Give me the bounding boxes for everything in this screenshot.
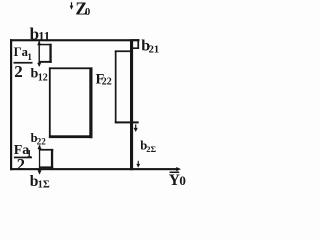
svg-text:22: 22 xyxy=(37,136,47,146)
wire outer top rail xyxy=(10,39,139,41)
svg-text:Y: Y xyxy=(169,172,180,189)
node b1S label xyxy=(30,173,50,191)
svg-text:1: 1 xyxy=(27,53,32,63)
inner rectangle (coupled line element F) xyxy=(49,67,93,138)
svg-text:21: 21 xyxy=(149,45,160,56)
svg-text:2Σ: 2Σ xyxy=(146,144,156,154)
label F*a1/2 fraction (bottom-left) xyxy=(14,143,32,174)
small wave arrow above bottom rail on right xyxy=(136,161,140,168)
wire outer bottom rail xyxy=(10,168,177,170)
element box at top-right corner (port 2) xyxy=(133,39,139,49)
node b2S label xyxy=(140,138,156,154)
node b11 label xyxy=(30,24,50,43)
node Z0 input arrow mark xyxy=(70,2,74,10)
svg-text:22: 22 xyxy=(102,77,112,88)
wave arrow below stub on right edge xyxy=(134,124,138,132)
label F22 xyxy=(96,72,112,88)
element box at port 1 (top-left) xyxy=(39,44,52,63)
svg-text:0: 0 xyxy=(179,173,186,188)
node b21 label xyxy=(141,37,159,55)
right stub line (narrow vertical rectangle) xyxy=(115,50,139,123)
node Y0 label (with overbar) xyxy=(169,172,186,189)
svg-text:0: 0 xyxy=(85,7,90,18)
node b12 label xyxy=(31,67,48,84)
output arrowhead on bottom rail (toward Y0) xyxy=(176,167,181,171)
node b22 label (faint) xyxy=(31,131,47,147)
svg-text:2: 2 xyxy=(14,62,23,81)
wire outer right thick edge xyxy=(130,39,133,170)
element box at port 1' (bottom-left) xyxy=(39,149,53,168)
wave arrow at port 1 (double headed, top-left) xyxy=(37,41,41,67)
node Z0 label xyxy=(75,0,90,19)
svg-text:2: 2 xyxy=(17,155,25,174)
svg-text:1Σ: 1Σ xyxy=(38,180,50,191)
svg-text:12: 12 xyxy=(38,73,48,84)
wire outer left edge xyxy=(10,39,12,170)
svg-text:11: 11 xyxy=(38,29,50,43)
label Gamma*a1/2 fraction (top-left) xyxy=(14,45,33,81)
wave arrow at port 1' (double headed, bottom-left) xyxy=(38,145,42,175)
